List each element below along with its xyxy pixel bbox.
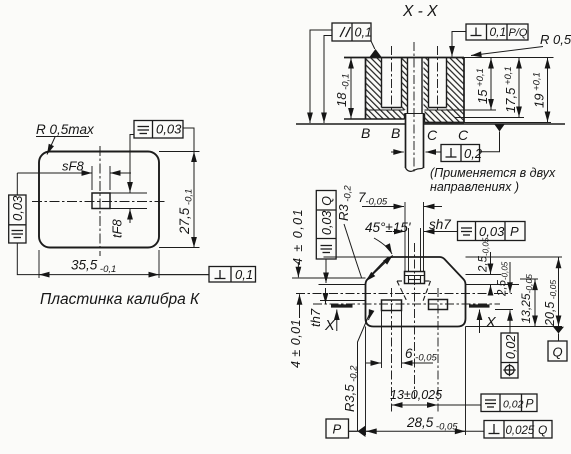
svg-text:4 ± 0,01: 4 ± 0,01 — [289, 319, 303, 368]
perpendicularity frame 0,1 P/Q — [466, 24, 528, 40]
svg-text:C: C — [458, 127, 469, 143]
bottom left — [344, 118, 405, 120]
arrows pointing at tongue — [426, 151, 442, 153]
27,5-0,1 dimension text — [177, 189, 195, 235]
hidden taper (dashed) — [397, 281, 431, 303]
section outline verticals — [365, 58, 367, 120]
part outline — [366, 257, 466, 327]
svg-text:R 0,5: R 0,5 — [540, 32, 571, 47]
extensions above part — [404, 202, 406, 272]
svg-text:P/Q: P/Q — [509, 27, 528, 39]
svg-text:0,1: 0,1 — [235, 267, 253, 282]
leader from P/Q frame to top surface — [452, 32, 466, 57]
svg-text:0,2: 0,2 — [464, 146, 483, 161]
bold measuring bars X — [331, 304, 353, 307]
symmetry frame 0,02 P — [481, 394, 537, 412]
position frame 0,02 (vertical) — [501, 333, 518, 378]
svg-text:th7: th7 — [308, 308, 323, 327]
leader from frame to datum triangle — [371, 41, 375, 49]
double arrow along chamfer (R3 corners) — [366, 268, 380, 282]
datum triangle on top surface — [370, 49, 382, 57]
17,5 extension line — [455, 117, 524, 119]
th7 label — [308, 308, 323, 327]
top surface — [344, 57, 464, 59]
hatched section body — [366, 58, 465, 123]
svg-text:(Применяется в двух: (Применяется в двух — [430, 166, 556, 180]
plate outline — [39, 152, 159, 248]
step lines — [366, 109, 405, 111]
datum box P — [326, 419, 349, 438]
R3-0,2 label with leader — [336, 185, 354, 221]
svg-text:B: B — [361, 125, 370, 141]
svg-text:Пластинка калибра К: Пластинка калибра К — [40, 291, 200, 308]
svg-text:sh7: sh7 — [429, 217, 451, 232]
slot centerlines — [391, 46, 393, 112]
hole sF8/tf8 — [92, 193, 110, 209]
svg-text:B: B — [391, 125, 400, 141]
tf8 label — [110, 218, 125, 238]
dimension 20,5-0,05 — [543, 280, 558, 327]
perpendicularity frame 0,025 Q — [484, 421, 552, 439]
datum triangle P — [358, 426, 366, 438]
symmetry frame 0,03 P — [458, 222, 526, 241]
leader from Q frame down — [325, 259, 327, 283]
left horizontal extension lines — [324, 256, 394, 258]
svg-text:P: P — [333, 422, 342, 437]
base line — [296, 123, 406, 125]
dimension 17,5+0,1 — [518, 58, 520, 118]
dimension 18-0,1 — [350, 58, 352, 120]
top slot rectangle — [405, 272, 425, 284]
parallelism frame // 0,1 — [332, 23, 371, 41]
leaders from //0,1 frame to base — [310, 30, 375, 123]
right horizontal extension lines — [466, 256, 563, 258]
svg-text:0,025: 0,025 — [506, 425, 535, 437]
dimension 19+0,1 — [547, 58, 549, 123]
tongue below section — [405, 114, 407, 168]
side slots — [382, 300, 402, 311]
svg-text:R 0,5max: R 0,5max — [36, 122, 95, 137]
dimensions 4±0,01 (two) — [291, 208, 305, 265]
notch — [405, 113, 425, 115]
R3,5-0,2 label with leader — [342, 365, 360, 412]
svg-text:C: C — [427, 127, 438, 143]
svg-text:X: X — [324, 318, 336, 334]
svg-text:Q: Q — [538, 423, 547, 437]
35,5 dimension line — [39, 274, 209, 276]
dimension 2,5-0,05 (second) — [497, 261, 510, 297]
svg-text:0,1: 0,1 — [355, 26, 372, 40]
svg-text:0,03: 0,03 — [156, 122, 182, 137]
top tolerance frame (symmetry 0,03) — [134, 121, 183, 139]
svg-text:sF8: sF8 — [62, 159, 84, 174]
centerlines — [296, 293, 512, 295]
svg-text:0,03: 0,03 — [320, 211, 334, 235]
hole extension lines up — [91, 166, 93, 190]
svg-text:Q: Q — [320, 196, 334, 206]
svg-text:45°±15': 45°±15' — [365, 220, 411, 235]
leader from top frame to 27,5 — [183, 128, 194, 152]
27,5 dimension line — [193, 152, 195, 248]
datum triangle under base line — [495, 125, 505, 132]
dimension 13,25-0,05 — [519, 274, 534, 324]
part edge extensions down — [365, 327, 367, 436]
datum triangle Q — [553, 327, 564, 334]
svg-text:0,03: 0,03 — [10, 195, 25, 221]
dimension 2,5-0,05 (first) — [478, 237, 491, 273]
left tolerance frame leader top — [16, 173, 18, 195]
horizontal centerline — [32, 201, 166, 203]
X leaders — [336, 310, 338, 332]
dimension 15+0,1 — [490, 58, 492, 111]
svg-text:13±0,025: 13±0,025 — [390, 388, 442, 402]
symmetry frame 0,03 Q (vertical) — [316, 191, 336, 260]
slot bottoms — [382, 107, 402, 109]
svg-text:tF8: tF8 — [110, 218, 125, 238]
bottom right — [425, 122, 465, 124]
svg-text:Q: Q — [553, 345, 563, 360]
svg-text:0,02: 0,02 — [504, 335, 518, 359]
sF8 dimension line with arrows — [17, 172, 92, 174]
slot edge extensions down — [381, 311, 383, 368]
R0,5max leader — [36, 136, 89, 138]
svg-text:0,1: 0,1 — [490, 25, 507, 39]
svg-text:0,02: 0,02 — [503, 399, 524, 411]
svg-text:P: P — [510, 224, 519, 239]
svg-text:направлениях ): направлениях ) — [430, 180, 519, 194]
left tolerance frame (symmetry 0,03, vertical) — [9, 195, 26, 243]
perpendicularity frame 0,2 — [441, 145, 480, 162]
svg-text:X: X — [485, 315, 497, 331]
svg-text:4 ± 0,01: 4 ± 0,01 — [291, 208, 305, 265]
vertical centerline — [99, 146, 101, 256]
35,5 extension lines — [38, 250, 40, 278]
27,5 extension lines — [159, 151, 200, 153]
perpendicularity frame 0,1 — [159, 267, 256, 283]
datum box Q — [548, 341, 567, 361]
svg-text:X - X: X - X — [402, 3, 438, 20]
svg-text:0,03: 0,03 — [479, 224, 505, 239]
tf8 dimension arrows — [130, 135, 134, 187]
svg-text:P: P — [526, 397, 534, 411]
left tolerance frame leader bottom — [17, 243, 39, 275]
th7 upper arrow — [325, 288, 327, 304]
hole extension lines right — [110, 192, 147, 194]
